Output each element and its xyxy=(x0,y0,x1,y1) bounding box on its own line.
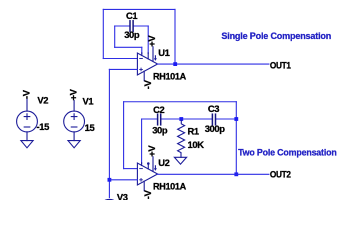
svg-text:15: 15 xyxy=(85,122,95,133)
svg-text:RH101A: RH101A xyxy=(153,70,186,81)
voltage source V2 xyxy=(17,99,38,141)
wire feedback top segment circuit1 xyxy=(103,8,175,10)
svg-text:-15: -15 xyxy=(37,121,50,132)
svg-text:+V: +V xyxy=(146,145,157,157)
wire C1 loop bottom edge xyxy=(115,46,142,48)
wire node to C3 xyxy=(181,118,212,120)
wire to U2 pin 1 xyxy=(141,119,143,164)
wire C3 to right edge xyxy=(216,118,237,120)
wire to U1 pin 8 xyxy=(147,26,149,54)
wire C2 to node xyxy=(161,118,182,120)
svg-text:Two Pole Compensation: Two Pole Compensation xyxy=(238,148,337,159)
U2 pin 8 dot xyxy=(147,162,150,165)
U1 non-inverting input mark xyxy=(140,68,143,71)
node junction C3 right xyxy=(234,117,238,121)
svg-text:-V: -V xyxy=(142,79,153,89)
svg-text:Single Pole Compensation: Single Pole Compensation xyxy=(221,31,331,42)
wire comp net left of C2 xyxy=(142,118,158,120)
resistor R1 xyxy=(178,121,185,158)
svg-text:C1: C1 xyxy=(126,10,137,21)
U1 V+ pin arrow xyxy=(154,58,157,61)
wire U1 non-inverting input xyxy=(109,68,137,70)
ground below V1 xyxy=(68,141,80,148)
op-amp U1 xyxy=(137,47,157,81)
node junction output U1 xyxy=(173,62,177,66)
wire U2 non-inverting input xyxy=(109,179,137,181)
svg-text:C3: C3 xyxy=(208,103,219,114)
wire C1 left lead xyxy=(115,25,130,27)
capacitor C3 xyxy=(212,114,215,125)
wire to U1 pin 1 xyxy=(141,47,143,53)
svg-text:+V: +V xyxy=(68,88,79,100)
svg-text:-V: -V xyxy=(20,89,31,99)
svg-text:10K: 10K xyxy=(188,139,205,150)
capacitor C2 xyxy=(158,114,161,125)
wire feedback right segment circuit1 xyxy=(174,9,176,64)
wire C1 right lead xyxy=(133,25,148,27)
capacitor C1 xyxy=(130,21,133,31)
U1 inverting input mark xyxy=(140,58,143,60)
svg-text:300p: 300p xyxy=(205,123,226,134)
svg-text:C2: C2 xyxy=(153,104,164,115)
wire feedback left segment circuit1 xyxy=(102,9,104,58)
svg-text:RH101A: RH101A xyxy=(153,180,186,191)
ground below V2 xyxy=(21,141,33,148)
wire feedback left circuit2 xyxy=(123,102,125,169)
wire V3 bus vertical xyxy=(108,69,110,179)
wire feedback right circuit2 xyxy=(235,102,237,175)
U2 V+ pin arrow xyxy=(154,168,157,171)
node junction V3 bus xyxy=(108,178,112,182)
U2 non-inverting input mark xyxy=(140,178,143,181)
wire feedback top circuit2 xyxy=(124,101,237,103)
wire U1 output xyxy=(158,63,269,65)
svg-text:V1: V1 xyxy=(83,95,94,106)
U2 inverting input mark xyxy=(140,168,143,170)
wire C1 loop left edge xyxy=(114,26,116,47)
svg-text:V3: V3 xyxy=(117,191,128,200)
svg-text:30p: 30p xyxy=(124,29,140,40)
svg-text:U1: U1 xyxy=(158,47,169,58)
svg-text:OUT2: OUT2 xyxy=(270,168,291,179)
wire to inverting input U2 xyxy=(124,168,138,170)
voltage source V1 xyxy=(64,101,85,141)
voltage source V3 top arc xyxy=(99,199,120,220)
svg-text:V2: V2 xyxy=(37,95,48,106)
svg-text:30p: 30p xyxy=(152,125,168,136)
ground below R1 xyxy=(174,157,186,164)
svg-text:U2: U2 xyxy=(158,157,169,168)
svg-text:OUT1: OUT1 xyxy=(270,59,291,70)
wire U2 output xyxy=(158,173,269,175)
wire V3 bus lower xyxy=(108,180,110,198)
svg-text:-V: -V xyxy=(142,189,153,199)
svg-text:R1: R1 xyxy=(188,125,199,136)
op-amp U2 xyxy=(137,157,157,191)
node junction comp net xyxy=(179,117,183,121)
wire to inverting input U1 xyxy=(103,58,137,60)
node junction output U2 xyxy=(234,172,238,176)
svg-text:+V: +V xyxy=(146,35,157,47)
